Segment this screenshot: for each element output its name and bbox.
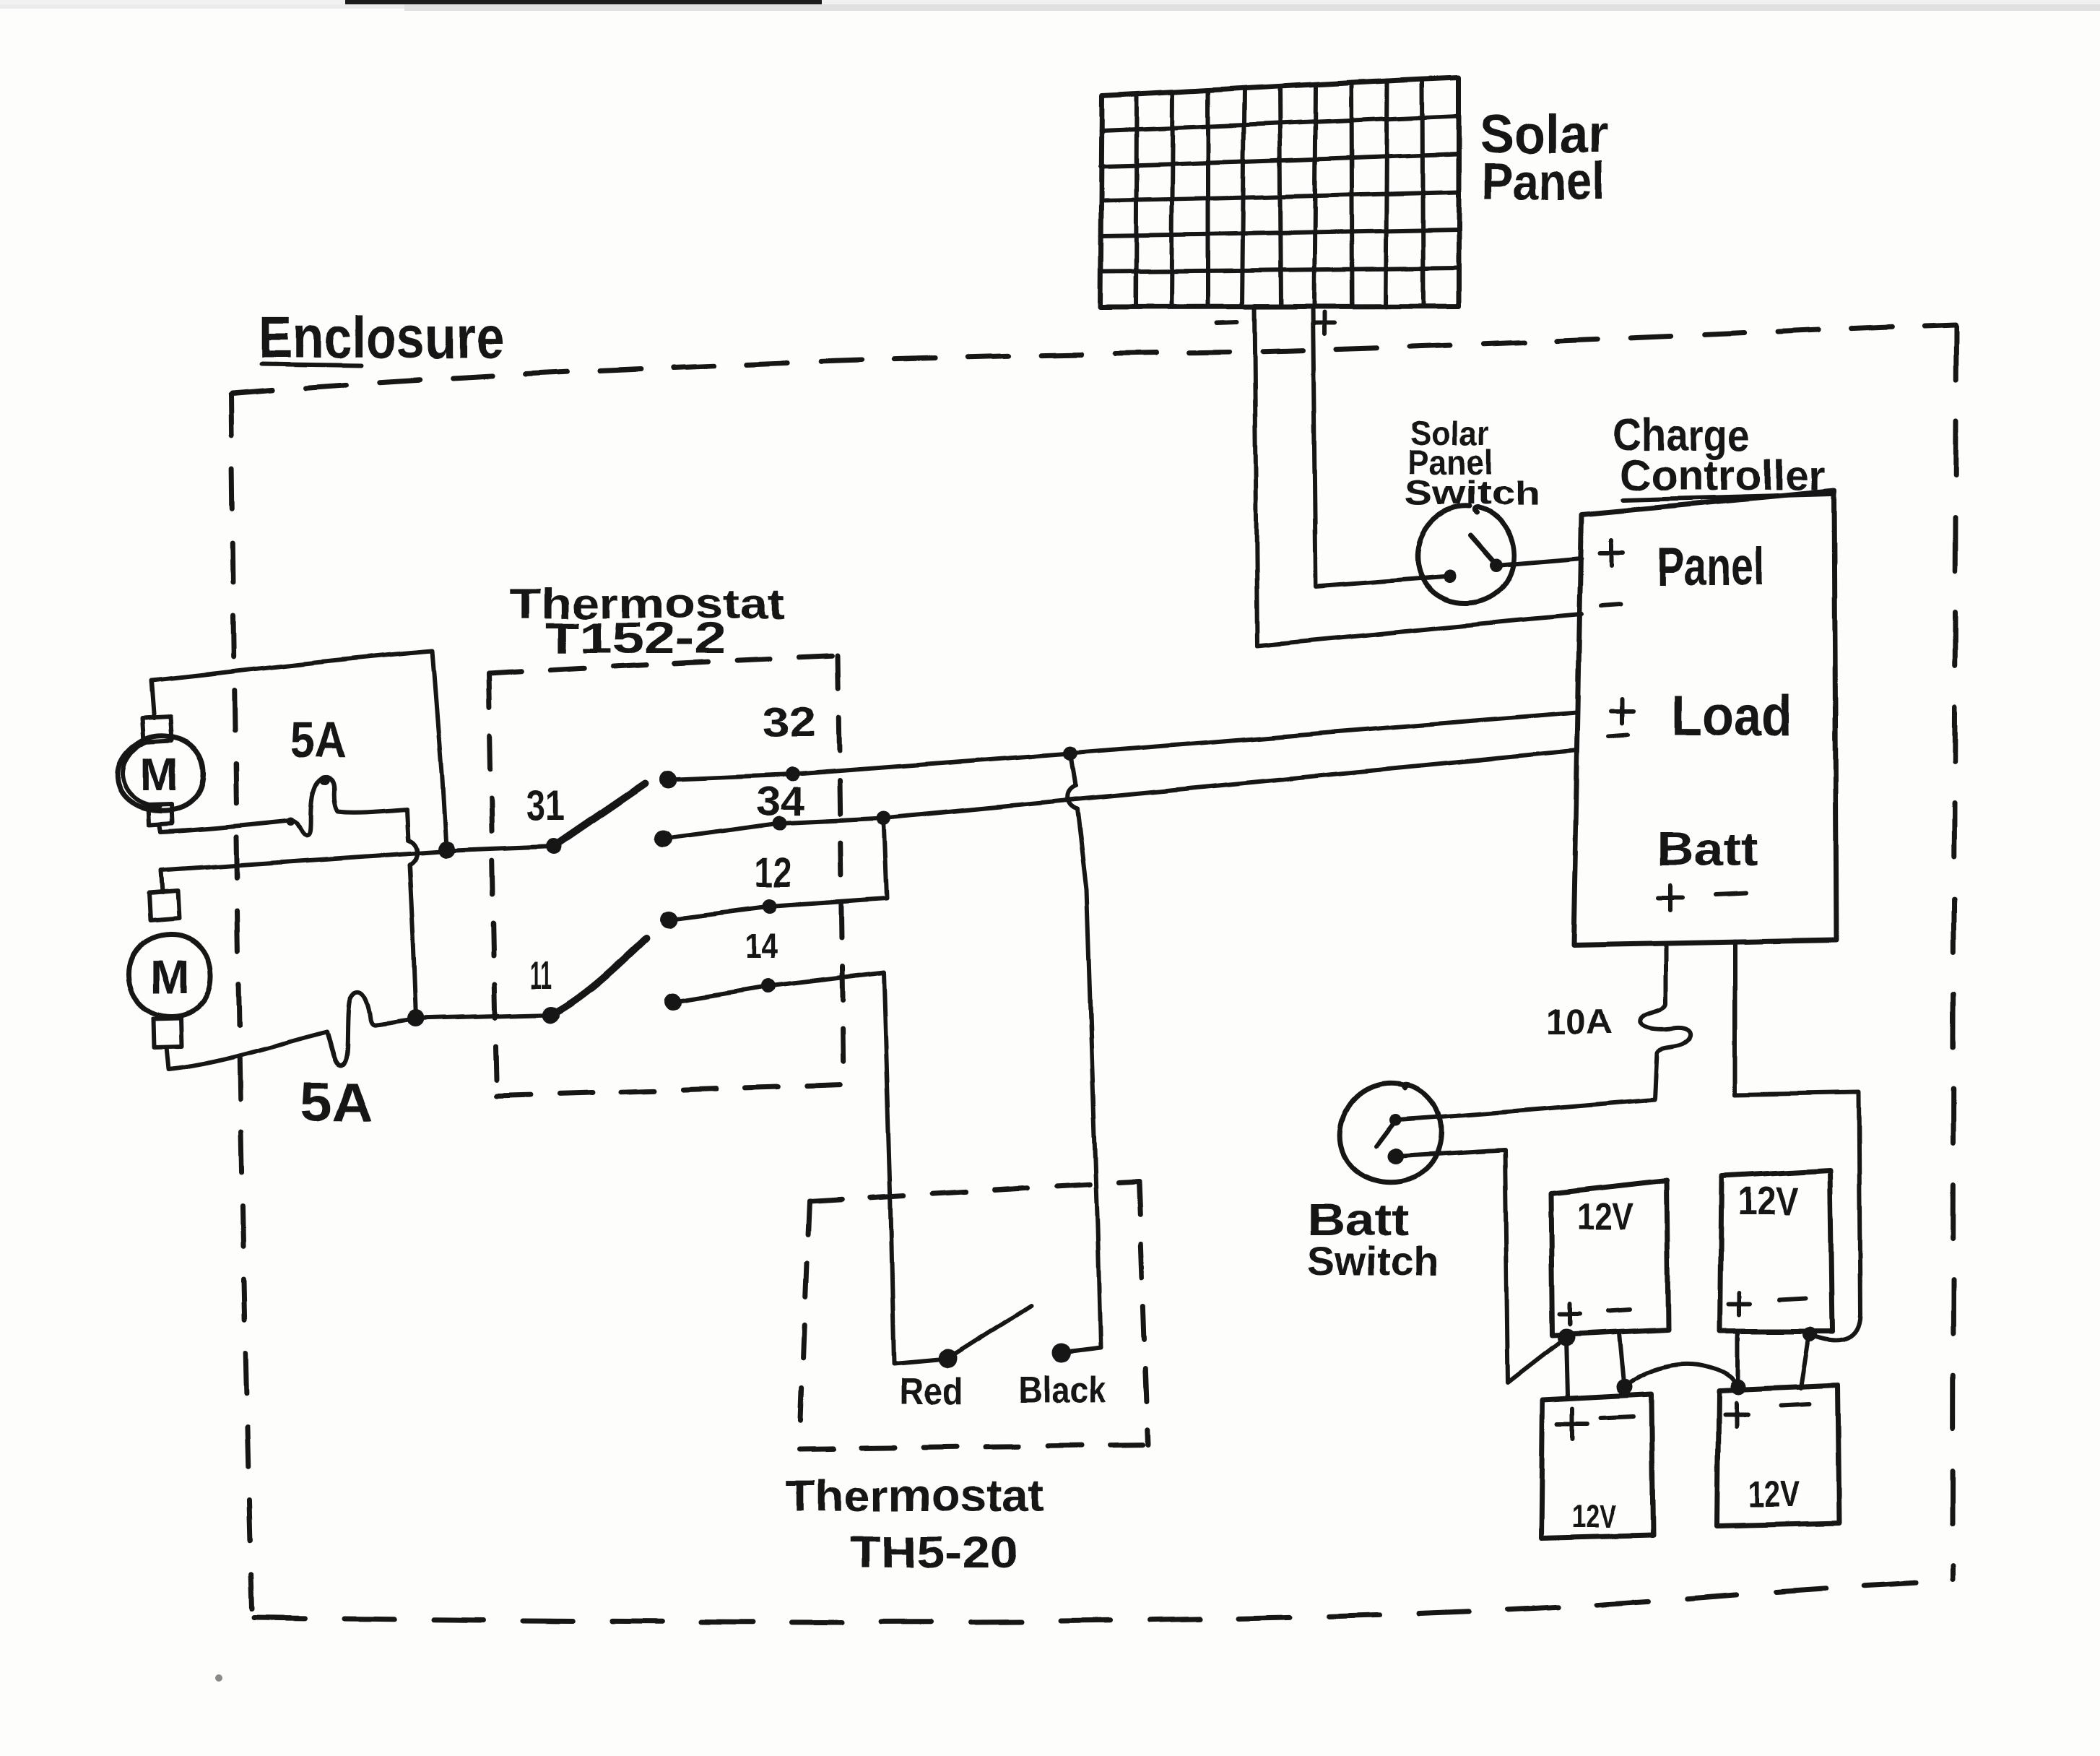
svg-text:14: 14 xyxy=(745,926,777,966)
wire: M2 bottom to fuse F2 xyxy=(166,1032,327,1070)
contact 14 and wire down to thermostat red xyxy=(664,993,681,1011)
svg-text:5A: 5A xyxy=(300,1070,373,1133)
wire: solar panel plus lead xyxy=(1313,306,1449,587)
svg-text:M: M xyxy=(150,950,190,1003)
label panel plus xyxy=(1600,540,1623,566)
svg-text:34: 34 xyxy=(756,778,805,823)
contact 32 and wire to controller load plus xyxy=(659,771,677,788)
charge controller U1 xyxy=(1574,490,1836,945)
svg-text:Thermostat: Thermostat xyxy=(786,1471,1044,1521)
underline xyxy=(261,364,361,366)
svg-text:Switch: Switch xyxy=(1405,474,1540,511)
wire: switch to controller panel plus xyxy=(1496,558,1581,566)
thermostat T152-2 dashed box xyxy=(489,656,843,1096)
enclosure dashed box xyxy=(231,324,1956,1622)
svg-text:12V: 12V xyxy=(1748,1474,1801,1515)
paper speck xyxy=(215,1674,222,1682)
wire: B1 minus down to junction xyxy=(1619,1333,1624,1387)
battery B4 12V xyxy=(1717,1385,1839,1526)
solar panel switch SW1 xyxy=(1418,506,1514,603)
label batt plus xyxy=(1658,886,1683,910)
svg-text:Black: Black xyxy=(1019,1370,1106,1410)
wire: J2 to 11 pivot xyxy=(416,1015,551,1018)
node J1 xyxy=(438,841,455,858)
switch blade 11 xyxy=(542,1006,560,1024)
batt switch SW2 xyxy=(1340,1084,1441,1182)
svg-text:Batt: Batt xyxy=(1657,822,1758,875)
label load minus xyxy=(1609,735,1628,737)
svg-text:T152-2: T152-2 xyxy=(545,614,726,662)
label minus xyxy=(1218,322,1237,323)
svg-text:Red: Red xyxy=(900,1371,963,1413)
fuse F3 10A xyxy=(1641,1004,1691,1099)
node B2 minus xyxy=(1802,1327,1817,1341)
svg-text:Controller: Controller xyxy=(1620,452,1826,499)
wire: solar panel minus lead xyxy=(1254,306,1581,646)
wire: controller batt minus to B2 minus xyxy=(1735,941,1860,1340)
battery B2 12V xyxy=(1720,1170,1832,1331)
contact 34 and wire to controller load minus xyxy=(654,830,672,847)
wire: fuse F1 to node J2 with hop xyxy=(407,810,417,1018)
wire: series link curve to B4 plus xyxy=(1624,1364,1738,1387)
fuse F2 5A xyxy=(327,992,415,1065)
wire: M2 top to 31 pivot through J1 xyxy=(161,847,554,892)
label panel minus xyxy=(1602,605,1622,606)
contact 12 and wire up to 34 junction xyxy=(660,911,677,928)
wire: B4 minus up to B2 minus xyxy=(1800,1338,1808,1388)
wire: M1 top loop to node J1 xyxy=(151,651,446,848)
svg-text:12V: 12V xyxy=(1737,1178,1798,1224)
thermostat TH5-20 dashed box xyxy=(799,1182,1148,1449)
svg-text:12V: 12V xyxy=(1577,1196,1633,1238)
svg-text:Switch: Switch xyxy=(1307,1238,1439,1284)
motor M1 xyxy=(118,717,204,825)
switch blade 31 xyxy=(546,839,562,855)
svg-text:32: 32 xyxy=(763,699,816,746)
node B1 plus xyxy=(1558,1328,1575,1346)
wire: controller batt plus down to fuse xyxy=(1664,945,1668,1004)
svg-text:31: 31 xyxy=(526,782,565,830)
battery B3 12V xyxy=(1541,1394,1653,1539)
enclosure bottom edge xyxy=(254,1581,1952,1622)
node B3 minus junction xyxy=(1616,1379,1632,1395)
wire: M1 bottom to fuse F1 xyxy=(160,821,287,832)
label load plus xyxy=(1612,698,1633,723)
enclosure right edge xyxy=(1953,326,1956,1580)
wire: B1 plus to B3 plus xyxy=(1566,1337,1568,1396)
solar panel PV1 xyxy=(1101,77,1459,307)
switch blade red xyxy=(948,1306,1031,1359)
motor M2 xyxy=(129,891,211,1047)
scan edge band xyxy=(0,0,2100,4)
svg-text:Panel: Panel xyxy=(1481,153,1605,211)
svg-text:Panel: Panel xyxy=(1657,537,1765,597)
svg-text:M: M xyxy=(140,748,178,800)
wire: B4 plus to B2 plus xyxy=(1736,1331,1740,1387)
svg-text:Enclosure: Enclosure xyxy=(259,305,504,371)
enclosure left edge xyxy=(231,395,252,1609)
node red terminal xyxy=(939,1349,958,1368)
svg-text:12: 12 xyxy=(755,849,791,896)
node black terminal xyxy=(1052,1344,1071,1362)
enclosure top edge xyxy=(233,324,1956,394)
wire: batt switch bottom contact to battery B1 plus xyxy=(1395,1150,1566,1383)
svg-text:TH5-20: TH5-20 xyxy=(849,1528,1019,1578)
node J2 xyxy=(407,1010,425,1027)
svg-text:12V: 12V xyxy=(1572,1497,1617,1535)
node B4 plus junction xyxy=(1730,1379,1746,1395)
label plus xyxy=(1314,312,1335,334)
wire: drop from 32 wire to thermostat black with hop xyxy=(1066,753,1101,1352)
svg-text:Load: Load xyxy=(1671,683,1792,748)
fuse F1 5A xyxy=(287,777,407,836)
battery B1 12V xyxy=(1551,1180,1668,1335)
svg-text:10A: 10A xyxy=(1547,1003,1612,1042)
svg-text:11: 11 xyxy=(530,954,552,998)
label batt minus xyxy=(1716,893,1746,894)
wire: fuse to batt switch top contact xyxy=(1397,1099,1655,1120)
svg-text:5A: 5A xyxy=(290,712,347,768)
